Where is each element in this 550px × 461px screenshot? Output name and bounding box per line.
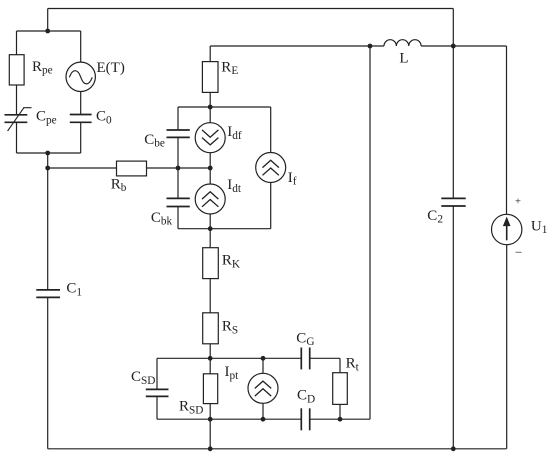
- resistor RK: [203, 248, 219, 279]
- wire box left branch upper: [16, 31, 18, 55]
- svg-text:+: +: [515, 197, 521, 208]
- node Rt bottom junction: [338, 417, 343, 422]
- wire RSD lower lead: [209, 404, 211, 420]
- capacitor C2: [441, 197, 465, 199]
- wire Rb to block: [147, 167, 211, 169]
- wire box right branch upper: [80, 31, 82, 62]
- source E(T): [66, 62, 95, 91]
- wire bottom block top rail left: [157, 357, 301, 359]
- wire box right branch lower: [80, 123, 82, 153]
- wire bottom rail: [48, 448, 507, 450]
- current source Ipt: [248, 373, 278, 403]
- resistor Rt: [333, 373, 348, 405]
- node C2 bottom junction: [451, 446, 456, 451]
- wire left column upper: [47, 153, 49, 290]
- capacitor CD: [300, 408, 302, 430]
- wire mid block bottom rail: [178, 228, 271, 230]
- wire Idt lower lead: [209, 214, 211, 229]
- wire bottom block bottom rail left: [157, 418, 301, 420]
- wire Cbe upper lead: [177, 107, 179, 130]
- node RS bottom junction: [208, 356, 213, 361]
- wire U1 drop upper: [506, 46, 508, 214]
- wire CSD upper lead: [156, 358, 158, 389]
- resistor RE: [202, 62, 218, 93]
- wire Cbe lower lead: [177, 137, 179, 168]
- wire RE top lead: [209, 46, 211, 62]
- current source If: [256, 153, 286, 183]
- wire left column lower: [47, 297, 49, 448]
- node Cbe-Rb junction: [176, 166, 181, 171]
- current source U1: [492, 214, 522, 244]
- wire bottom block top rail right: [310, 357, 340, 359]
- wire box bottom edge: [17, 152, 81, 154]
- node mid block top junction: [208, 105, 213, 110]
- current source Idf: [195, 123, 225, 153]
- wire Cbk upper lead: [177, 168, 179, 198]
- inductor L: [384, 40, 421, 46]
- node mid block bottom junction: [208, 226, 213, 231]
- wire block to bottom rail: [209, 419, 211, 449]
- svg-text:−: −: [515, 245, 522, 260]
- trimmer arrow Cpe: [8, 108, 32, 131]
- wire Idf-Idt link: [209, 153, 211, 184]
- wire Idf upper lead: [209, 107, 211, 123]
- svg-text:E(T): E(T): [97, 60, 125, 76]
- resistor RSD: [203, 374, 217, 404]
- wire Ipt upper lead: [262, 358, 264, 373]
- node L left junction: [368, 44, 373, 49]
- wire top-left drop: [47, 9, 49, 32]
- wire Cbk lower lead: [177, 207, 179, 229]
- wire L rail: [210, 45, 384, 47]
- svg-text:L: L: [399, 50, 408, 66]
- wire CSD lower lead: [156, 396, 158, 419]
- wire mid block top rail: [178, 106, 271, 108]
- node Rb junction: [45, 166, 50, 171]
- node Idf-Idt junction: [208, 166, 213, 171]
- wire Ipt lower lead: [262, 403, 264, 419]
- wire If lower lead: [270, 183, 272, 229]
- node Ipt top junction: [261, 356, 266, 361]
- wire If upper lead: [270, 107, 272, 153]
- wire box right branch mid: [80, 92, 82, 115]
- wire Rt top lead: [339, 358, 341, 372]
- wire Rb horizontal: [48, 167, 117, 169]
- capacitor C0: [70, 114, 92, 116]
- capacitor Cpe: [5, 114, 28, 116]
- resistor RS: [203, 313, 219, 344]
- wire top rail: [48, 8, 454, 10]
- wire RSD upper lead: [209, 358, 211, 374]
- node L right junction: [451, 44, 456, 49]
- capacitor Cbk: [167, 197, 190, 199]
- wire Rt bottom lead: [339, 404, 341, 419]
- resistor Rb: [117, 161, 147, 176]
- wire RE bottom lead: [209, 92, 211, 107]
- capacitor C1: [36, 289, 60, 291]
- current source Idt: [195, 184, 225, 214]
- node box bottom junction: [45, 151, 50, 156]
- wire RK-RS link: [209, 279, 211, 313]
- wire RK upper lead: [209, 229, 211, 248]
- capacitor Cbe: [167, 129, 190, 131]
- wire C2 column upper: [452, 9, 454, 199]
- capacitor CSD: [146, 388, 169, 390]
- wire box left branch lower: [16, 123, 18, 153]
- resistor Rpe: [9, 55, 24, 85]
- node RSD bottom junction: [208, 417, 213, 422]
- node box top junction: [45, 29, 50, 34]
- wire U1 drop lower: [506, 245, 508, 449]
- wire bottom block bottom rail right: [310, 418, 370, 420]
- wire right bypass vertical: [369, 46, 371, 419]
- wire C2 column lower: [452, 206, 454, 449]
- wire RS lower lead: [209, 344, 211, 359]
- capacitor CG: [300, 348, 302, 370]
- node bottom rail junction: [208, 446, 213, 451]
- node Ipt bottom junction: [261, 417, 266, 422]
- wire box top edge: [17, 30, 81, 32]
- wire box left branch mid: [16, 85, 18, 115]
- wire L rail right: [421, 45, 506, 47]
- sine wave E(T): [69, 71, 92, 84]
